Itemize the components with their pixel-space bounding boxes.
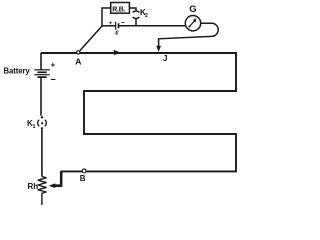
- svg-text:+: +: [51, 61, 56, 70]
- svg-text:2: 2: [145, 13, 148, 19]
- svg-text:B: B: [80, 174, 86, 183]
- svg-text:Battery: Battery: [4, 66, 31, 75]
- svg-text:ε: ε: [115, 28, 119, 37]
- svg-text:Rh: Rh: [28, 182, 39, 191]
- svg-text:A: A: [75, 56, 81, 66]
- svg-text:1: 1: [33, 124, 36, 130]
- svg-text:G: G: [189, 4, 196, 15]
- svg-text:+: +: [109, 21, 113, 27]
- svg-text:−: −: [121, 20, 125, 27]
- svg-text:R.B.: R.B.: [112, 6, 125, 13]
- svg-text:−: −: [51, 75, 56, 85]
- svg-text:J: J: [163, 54, 167, 63]
